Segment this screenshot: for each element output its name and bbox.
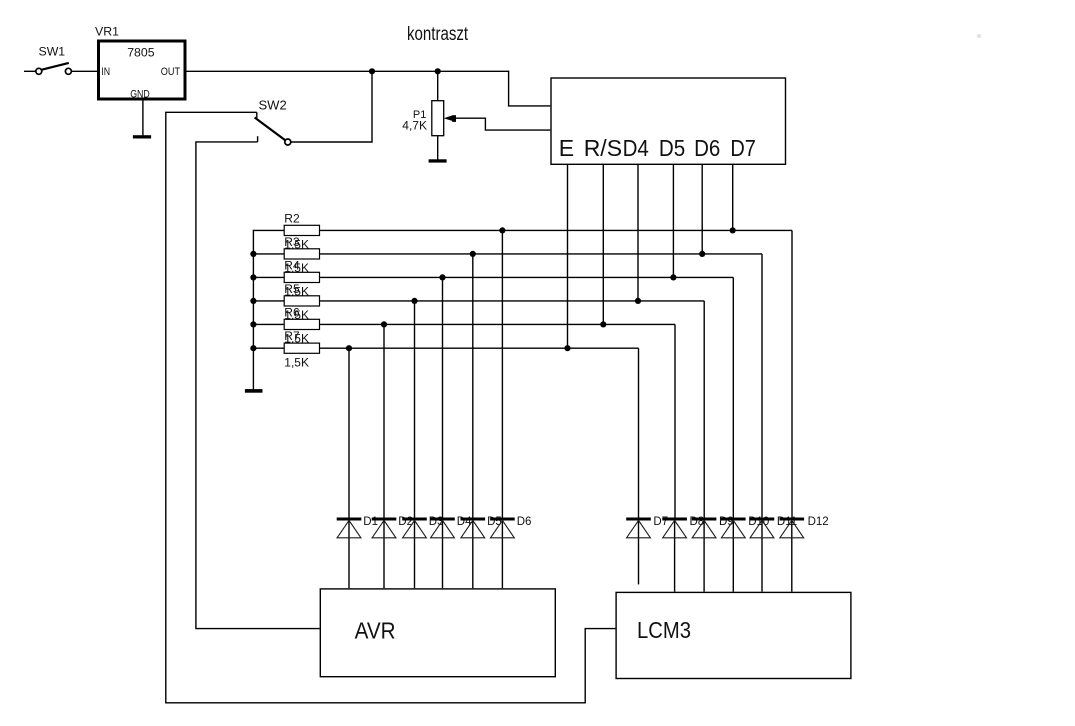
wire pin D6 down to resistor row 2	[701, 165, 703, 254]
junction row 2 branch	[470, 251, 476, 257]
wire SW2 pole up to rail	[291, 71, 372, 142]
svg-text:R3: R3	[284, 235, 300, 249]
junction bus	[250, 321, 256, 327]
wire row 2 corner down to diode	[761, 254, 763, 518]
ground for ladder	[245, 389, 263, 393]
diode D11	[750, 518, 775, 538]
svg-text:E: E	[559, 135, 574, 161]
wire input stub to SW1	[24, 70, 36, 72]
wire diode D5 to AVR	[472, 518, 474, 589]
wire row 4 branch down to diode	[414, 301, 416, 518]
wire P1 wiper to LCD box	[456, 118, 551, 130]
svg-text:7805: 7805	[127, 46, 155, 60]
diode D6	[490, 518, 515, 538]
svg-text:D6: D6	[694, 135, 720, 161]
wire diode D2 to AVR	[383, 518, 385, 589]
wire pin D7 down to resistor row 1	[732, 165, 734, 231]
junction bus	[250, 274, 256, 280]
wire diode D9 to LCM3	[703, 518, 705, 592]
wire row 3 corner down to diode	[732, 277, 734, 517]
wire diode D6 to AVR	[501, 518, 503, 589]
ground for P1	[429, 159, 447, 162]
wire P1 bottom to ground	[437, 136, 439, 160]
wire bus stub row 4	[253, 300, 284, 302]
junction bus	[250, 298, 256, 304]
smudge	[977, 34, 981, 38]
junction bus	[250, 345, 256, 351]
junction pin R/S on row 5	[600, 321, 606, 327]
svg-text:R/S: R/S	[584, 135, 622, 161]
wire row 3 to right corner	[320, 276, 734, 278]
resistor R2 1,5K body	[284, 225, 319, 235]
wire row 6 to right corner	[320, 347, 639, 349]
wire diode D12 to LCM3	[791, 518, 793, 592]
wiper arrow of P1	[444, 115, 456, 122]
wire pin D5 down to resistor row 3	[672, 165, 674, 278]
junction row 3 branch	[439, 274, 445, 280]
wire pin D4 down to resistor row 4	[637, 165, 639, 301]
svg-text:VR1: VR1	[95, 24, 119, 38]
microcontroller AVR box	[320, 589, 555, 677]
svg-text:R4: R4	[284, 258, 300, 272]
svg-text:D4: D4	[623, 135, 649, 161]
switch SW1	[36, 63, 72, 74]
wire rail to P1 top	[437, 71, 439, 100]
wire row 1 to right corner	[320, 229, 793, 231]
wire pin E down to resistor row 6	[567, 165, 569, 348]
junction pin D6 on row 2	[699, 251, 705, 257]
diode D1	[337, 518, 362, 538]
svg-text:D7: D7	[730, 136, 756, 162]
svg-text:R6: R6	[284, 305, 300, 319]
wire row 5 corner down to diode	[674, 324, 676, 517]
junction row 6 branch	[346, 345, 352, 351]
junction at P1 top	[435, 68, 441, 74]
wire row 5 to right corner	[320, 323, 676, 325]
wire row 1 branch down to diode	[501, 230, 503, 517]
wire diode D8 to LCM3	[674, 518, 676, 592]
diode D8	[662, 518, 687, 538]
diode D9	[692, 518, 717, 538]
wire VR1 GND pin	[142, 101, 144, 136]
junction bus	[250, 251, 256, 257]
LCD interface box	[551, 78, 786, 164]
junction row 4 branch	[411, 298, 417, 304]
wire row 2 to right corner	[320, 253, 763, 255]
wire row 2 branch down to diode	[472, 254, 474, 518]
diode D3	[402, 518, 427, 538]
LCD module LCM3 box	[616, 592, 851, 678]
junction pin D7 on row 1	[730, 227, 736, 233]
wire pin R/S down to resistor row 5	[602, 165, 604, 325]
junction at SW2 branch	[369, 68, 375, 74]
wire row 6 branch down to diode	[348, 348, 350, 517]
wire VR1 OUT rail	[187, 70, 509, 72]
svg-text:1,5K: 1,5K	[284, 356, 309, 370]
svg-text:IN: IN	[101, 66, 110, 78]
wire diode D11 to LCM3	[761, 518, 763, 592]
wire row 4 to right corner	[320, 300, 705, 302]
wire row 3 branch down to diode	[442, 277, 444, 517]
wire bus stub row 5	[253, 323, 284, 325]
switch SW2 blade	[255, 118, 291, 146]
svg-text:D5: D5	[659, 135, 685, 161]
wire row 5 branch down to diode	[383, 324, 385, 517]
ground for VR1	[133, 135, 151, 138]
wire diode D3 to AVR	[414, 518, 416, 589]
svg-text:GND: GND	[130, 88, 150, 100]
pin tick SW2 top contact	[256, 112, 258, 119]
svg-text:kontraszt: kontraszt	[407, 22, 468, 44]
wire row 4 corner down to diode	[703, 301, 705, 518]
junction pin E on row 6	[564, 345, 570, 351]
wire SW1 to VR1 IN	[72, 70, 98, 72]
voltage regulator VR1 7805	[99, 41, 186, 101]
resistor R3 1,5K body	[284, 249, 319, 259]
potentiometer P1 body	[432, 101, 444, 136]
resistor R7 1,5K body	[284, 343, 319, 353]
diode D7	[626, 518, 651, 538]
svg-text:AVR: AVR	[355, 617, 396, 643]
svg-text:OUT: OUT	[161, 66, 180, 78]
svg-text:D6: D6	[517, 516, 532, 528]
wire bus stub row 3	[253, 276, 284, 278]
junction pin D4 on row 4	[635, 298, 641, 304]
pin tick SW2 lower contact	[257, 136, 259, 142]
wire diode D1 to AVR	[348, 518, 350, 589]
svg-text:SW2: SW2	[259, 98, 287, 113]
wire diode D7 to LCM3	[638, 518, 640, 585]
wire diode D10 to LCM3	[732, 518, 734, 592]
junction row 1 branch	[499, 227, 505, 233]
svg-text:4,7K: 4,7K	[402, 118, 427, 132]
svg-text:R7: R7	[284, 329, 300, 343]
diode D5	[461, 518, 486, 538]
resistor R4 1,5K body	[284, 272, 319, 282]
resistor R6 1,5K body	[284, 319, 319, 329]
wire ladder ground bus	[252, 230, 254, 390]
wire bus stub row 1	[253, 229, 284, 231]
diode D2	[372, 518, 397, 538]
diode D12	[780, 518, 805, 538]
svg-text:LCM3: LCM3	[637, 617, 691, 644]
wire row 6 corner down to diode	[638, 348, 640, 517]
diode D10	[721, 518, 746, 538]
resistor R5 1,5K body	[284, 296, 319, 306]
svg-text:D12: D12	[808, 516, 829, 528]
wire bus stub row 6	[253, 347, 284, 349]
svg-text:R2: R2	[284, 211, 300, 225]
wire SW2 common to bottom rail to LCM3	[166, 112, 616, 703]
wire SW2 lower contact to AVR	[196, 142, 320, 629]
wire diode D4 to AVR	[442, 518, 444, 589]
svg-text:R5: R5	[284, 282, 300, 296]
wire row 1 corner down to diode	[791, 230, 793, 517]
svg-text:SW1: SW1	[39, 44, 66, 58]
wire bus stub row 2	[253, 253, 284, 255]
junction row 5 branch	[381, 321, 387, 327]
wire rail into LCD box	[509, 71, 551, 106]
diode D4	[430, 518, 455, 538]
junction pin D5 on row 3	[670, 274, 676, 280]
